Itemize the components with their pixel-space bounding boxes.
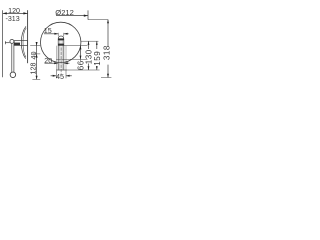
svg-text:120: 120 [8,7,20,15]
extension line A dome base [81,40,98,42]
node 120 dimension line [3,12,28,14]
wall plate left edge hidden [55,46,57,70]
40/128 dimension column [30,45,40,47]
wire left extension line (mirror extended position) [2,10,4,77]
svg-text:159: 159 [93,51,102,66]
svg-text:-313: -313 [5,15,19,23]
extension plate top [56,58,87,60]
svg-text:40: 40 [29,52,38,60]
svg-text:15: 15 [44,26,52,35]
extension line B collar [64,45,88,47]
wall plate right edge hidden [65,46,67,70]
tube inner lines [59,40,61,70]
66 dimension line [80,46,82,60]
knob joint circle [10,39,14,43]
dome cap bracket [58,36,64,40]
post outer lines [57,40,59,70]
extension 318 bottom [101,77,111,79]
159 dimension line [96,41,98,49]
handle pin [5,42,9,44]
svg-text:128: 128 [29,63,38,75]
20 dimension [45,62,58,64]
extension plate bottom long [66,69,100,71]
diameter 212 dimension [56,15,88,17]
ball end [10,72,16,78]
arm side view [14,41,27,46]
318 dimension line [107,20,109,47]
svg-text:45: 45 [56,72,64,81]
collar band [58,44,64,46]
130 dimension line [88,41,90,49]
wall plate bottom edge front view [56,69,66,71]
centerline dashed [60,48,62,75]
mirror dish side profile [21,26,26,58]
svg-text:Ø212: Ø212 [55,8,74,17]
wire wall line side view [27,10,29,63]
15 dimension at dome [57,33,59,36]
45 dimension [55,70,57,78]
svg-text:318: 318 [102,45,111,60]
mirror circle front view [41,22,81,62]
stem tube side view [11,44,13,73]
svg-text:20: 20 [44,56,52,65]
